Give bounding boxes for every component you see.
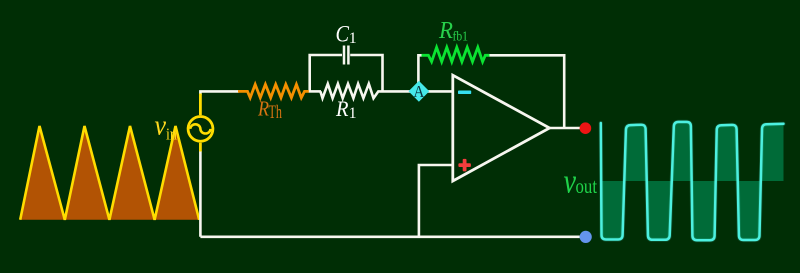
svg-text:R: R [438,17,453,44]
svg-text:fb1: fb1 [453,30,469,45]
svg-text:1: 1 [349,105,357,122]
svg-text:C: C [336,21,350,47]
svg-text:out: out [576,174,598,198]
svg-text:v: v [564,161,577,200]
svg-text:R: R [257,96,269,120]
svg-text:A: A [413,82,424,101]
svg-text:in: in [166,124,177,143]
svg-text:1: 1 [349,30,357,47]
svg-text:R: R [335,96,349,121]
svg-text:v: v [155,110,167,142]
svg-text:Th: Th [269,103,283,123]
